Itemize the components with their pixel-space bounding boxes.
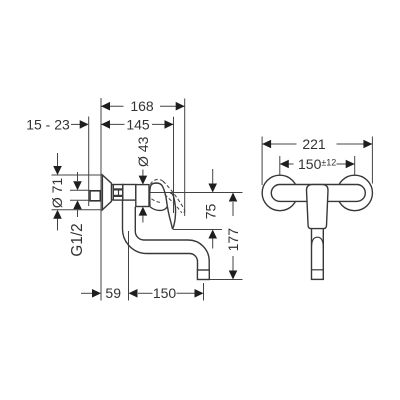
node ext G top — [70, 189, 90, 191]
svg-text:145: 145 — [126, 117, 150, 133]
svg-text:168: 168 — [130, 98, 154, 114]
dimension 15-23 — [71, 123, 81, 125]
G1/2 pipe stub — [90, 191, 100, 201]
svg-text:177: 177 — [225, 228, 241, 252]
dimension 177 — [229, 193, 238, 202]
node axis line — [149, 192, 243, 194]
dimension 145 — [101, 123, 174, 125]
escutcheon cone — [102, 175, 111, 210]
dimension 75 — [212, 169, 214, 184]
handle cap front — [307, 185, 329, 229]
spout tube — [123, 200, 198, 270]
wire wall line right — [100, 98, 102, 301]
svg-text:221: 221 — [302, 136, 326, 152]
handle underside — [150, 207, 167, 211]
node ext O71 bottom — [52, 209, 103, 211]
union nut — [112, 185, 123, 201]
svg-text:Ø 43: Ø 43 — [135, 136, 151, 167]
node ext 168 right — [184, 99, 186, 217]
dimension 221 — [262, 137, 372, 186]
dimension 59 and 150 — [81, 292, 93, 294]
dimension 150 +-12 — [280, 156, 355, 175]
escutcheon circle left — [262, 175, 298, 211]
body bar — [271, 185, 365, 202]
node ext spout bottom — [210, 279, 243, 281]
node ext G bottom — [70, 199, 90, 201]
aerator — [197, 270, 209, 280]
dimension 168 — [101, 105, 185, 107]
node ext spout end — [203, 283, 205, 301]
svg-text:15 - 23: 15 - 23 — [26, 117, 70, 133]
lever blade front — [312, 226, 324, 279]
handle blade back edge — [170, 193, 176, 229]
handle solid outline — [150, 183, 173, 229]
svg-text:Ø 71: Ø 71 — [49, 178, 65, 209]
node ext handle tip — [173, 229, 222, 231]
svg-text:75: 75 — [202, 204, 218, 220]
node ext O71 top — [52, 174, 103, 176]
blade arc detail — [312, 237, 324, 246]
handle dashed raised — [150, 179, 184, 212]
node ext 145 right — [173, 117, 175, 213]
escutcheon circle right — [337, 175, 373, 211]
valve body — [136, 185, 149, 207]
svg-text:59: 59 — [105, 285, 121, 301]
svg-text:G1/2: G1/2 — [69, 223, 86, 256]
svg-text:150±12: 150±12 — [298, 156, 336, 172]
blade bottom line — [312, 269, 324, 271]
dimension O43 arrows — [142, 170, 144, 178]
union body — [123, 185, 136, 201]
wall line left — [88, 117, 90, 207]
svg-text:150: 150 — [153, 285, 177, 301]
node ext 59-150 — [128, 231, 130, 301]
